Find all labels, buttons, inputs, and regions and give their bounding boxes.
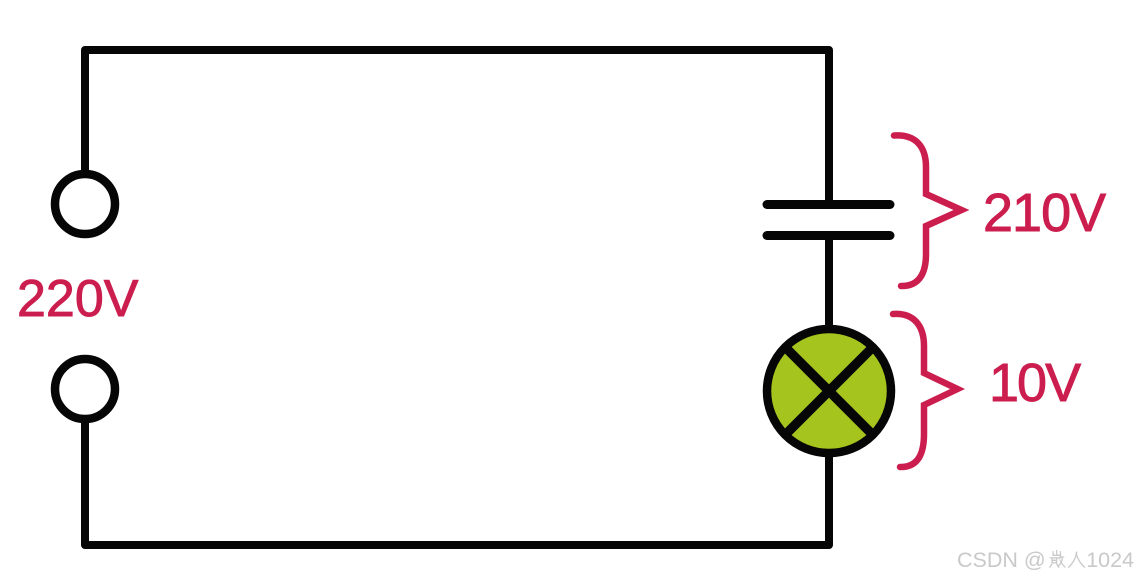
svg-text:210V: 210V xyxy=(983,183,1106,243)
svg-text:1024: 1024 xyxy=(1086,548,1134,572)
svg-text:220V: 220V xyxy=(17,270,139,328)
svg-text:CSDN @: CSDN @ xyxy=(957,548,1046,572)
svg-text:10V: 10V xyxy=(989,353,1081,413)
